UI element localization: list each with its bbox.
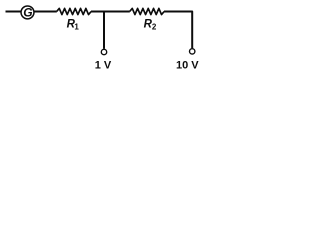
wire (to right corner and down to 10 V terminal) [164, 12, 192, 49]
terminal 10 V [190, 49, 195, 54]
wire [6, 11, 21, 13]
svg-text:1 V: 1 V [95, 59, 112, 71]
generator G [21, 6, 34, 20]
svg-text:G: G [23, 6, 32, 20]
wire [34, 11, 56, 13]
terminal 1 V [101, 49, 106, 54]
resistor R2 [130, 8, 165, 14]
wire (junction drop to 1 V terminal) [103, 12, 105, 49]
svg-text:R2: R2 [144, 19, 157, 32]
resistor R1 [57, 8, 92, 14]
svg-text:10 V: 10 V [176, 59, 199, 71]
wire [91, 11, 130, 13]
svg-text:R1: R1 [67, 19, 80, 32]
